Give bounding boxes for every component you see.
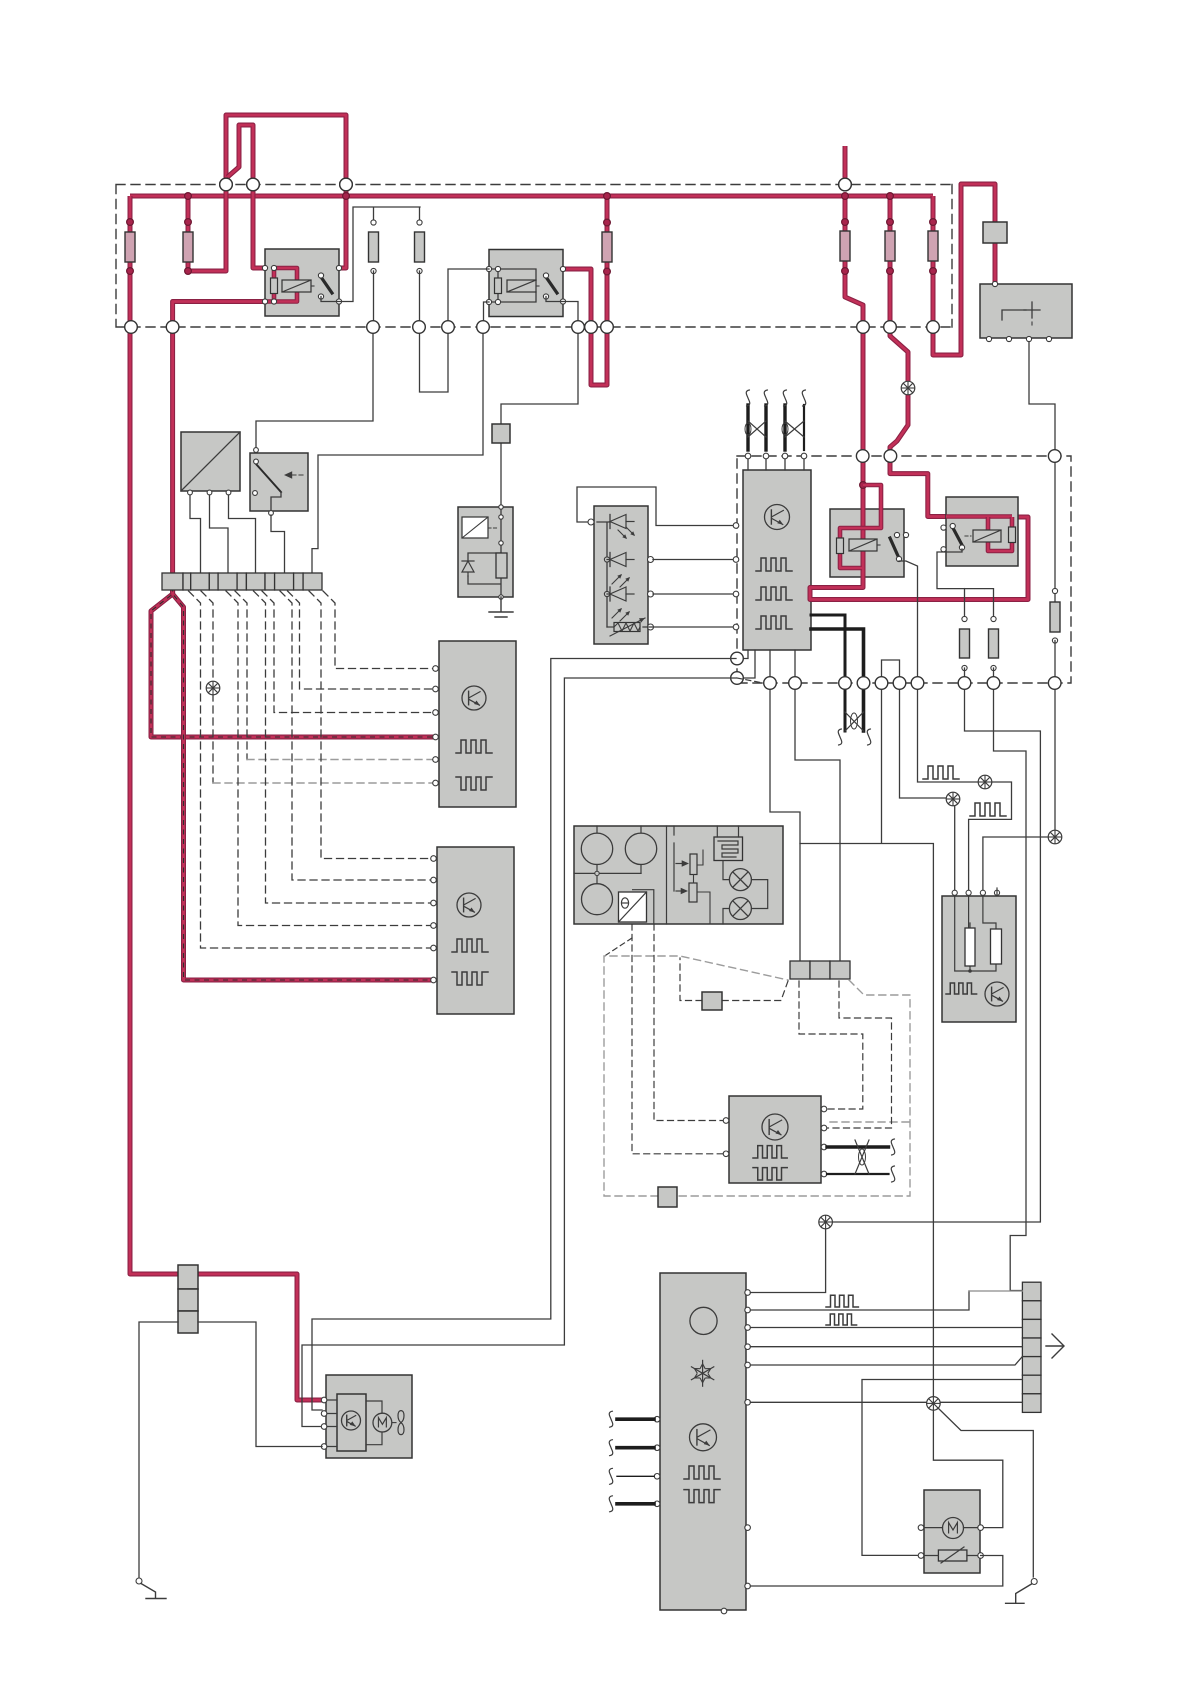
relay K1 coil xyxy=(282,280,311,292)
dashed diagonal to ghost corner xyxy=(606,938,632,955)
node: junction circle (x=253) xyxy=(247,178,260,191)
wire: node x=483 down/left to 14-pin connector xyxy=(312,333,483,573)
node: junction circles overdraw (top rail) xyxy=(220,178,233,191)
center ECU thick output wires with twist xyxy=(827,1145,889,1148)
booster fan motor box xyxy=(924,1490,980,1573)
relay K4 red coil loop xyxy=(988,517,1012,551)
regulator internal wiring xyxy=(468,507,501,597)
wire: node x=578 to voltage regulator via inline connector xyxy=(501,333,578,507)
wire t2 up into strip cell1 xyxy=(750,1291,969,1310)
relay K2 coil feed wire from fuse F4 via loop xyxy=(420,269,490,392)
relay K2 coil ground wire to node x=483 xyxy=(484,302,490,321)
relay K2 coil wires (black) xyxy=(489,269,536,302)
switch arrow xyxy=(292,474,306,476)
LED resistor (variable) xyxy=(607,626,614,628)
relay K3 coil resistor xyxy=(837,538,844,554)
relay K1 red coil loop xyxy=(265,268,297,302)
3-cell inline connector xyxy=(790,961,810,979)
fan control ECU bottom left xyxy=(326,1375,412,1458)
relay K2 (gray box) xyxy=(489,250,563,317)
regulator resistor xyxy=(496,553,507,578)
symbol: K circle xyxy=(690,1424,717,1451)
PWM glyph above wire xyxy=(923,766,959,779)
blower unit right terminals xyxy=(745,1290,751,1296)
wire: red bus tap down to fuse F2 xyxy=(186,196,191,271)
bottom rail junction circles of central unit xyxy=(125,321,138,334)
dashed wires from theta sensor to center ECU left terminals xyxy=(654,924,723,1121)
fuse F5 (red, x=607) with bus tap xyxy=(605,196,610,327)
gray dashed stub right of center ECU xyxy=(830,1121,910,1123)
ECU A (instrument module) xyxy=(439,641,516,807)
connector lamp symbol on harness wire xyxy=(206,681,220,695)
panel indicator lamp 2 xyxy=(729,898,751,920)
fuse F2 (red, x=188) xyxy=(183,232,193,262)
relay K3 coil xyxy=(849,539,877,551)
relay K4 (gray box) xyxy=(946,497,1018,566)
fan ECU motor xyxy=(366,1401,382,1445)
relay K1 switch output wire (black) xyxy=(321,207,420,302)
blower unit bottom edge terminal xyxy=(721,1608,727,1614)
dashed wire from connector cell1 via inline connector xyxy=(722,981,788,1001)
relay K3 switch blade xyxy=(890,538,898,556)
fuse on box2 right edge (x=1055) xyxy=(1054,593,1056,602)
LED 3 xyxy=(607,593,610,595)
fuse feed branch x=964.5 xyxy=(964,589,966,619)
inline connector square (x=501) xyxy=(492,424,510,443)
wire: red from node x=890 down with lamp to node below xyxy=(890,333,908,456)
inline connector blocks left (red feed) xyxy=(178,1265,198,1289)
dashed harness wires from connector to ECU A xyxy=(323,591,435,669)
LED 1 emit arrows xyxy=(618,527,634,538)
relay K2 switch blade xyxy=(546,277,557,293)
junction circles on box2 bottom rail xyxy=(764,677,777,690)
relay K1 (gray box) xyxy=(265,249,339,316)
ECU1 left terminals xyxy=(733,523,739,529)
regulator zener diode xyxy=(462,561,474,576)
LED 3 arrows xyxy=(612,609,629,621)
output arrow xyxy=(1046,1334,1064,1358)
LED sensor box (sun sensor) xyxy=(577,487,733,526)
junction circles on box2 left edge xyxy=(731,652,744,665)
dashed distribution box 2 xyxy=(737,456,1071,683)
three-phase wires with break above ECU1 xyxy=(746,405,749,450)
LED box right terminals and wires to ECU1 xyxy=(648,557,654,563)
relay K4 switch blade xyxy=(953,528,962,545)
wire t3 to strip cell3 xyxy=(750,1327,1022,1329)
relay K1 coil resistor xyxy=(271,278,278,294)
ignition switch xyxy=(980,284,1072,338)
wires from ECU1 bottom terminals t5 t6 long left runs xyxy=(312,659,736,1411)
relay K2 coil xyxy=(507,280,536,292)
wavy break marks xyxy=(838,729,842,745)
relay K1 switch blade xyxy=(321,277,332,293)
wire: red from relay K2 switch out to node x=591 xyxy=(546,269,591,327)
14-pin connector strip xyxy=(162,573,183,590)
central electrical unit (dashed box) xyxy=(116,185,952,328)
relay K2 terminals xyxy=(486,266,491,271)
relay K3 red coil loop xyxy=(840,528,862,568)
red wire from node x=863 through relay K3 down to long red run xyxy=(810,462,1028,600)
fan ECU inner module xyxy=(337,1394,366,1451)
wire: main red feed left, down from bus through fuse F1 to bottom left corner and fan ECU xyxy=(130,196,322,1400)
wire: red feed hook from node x=253 xyxy=(228,125,254,185)
symbol: PWM glyphs xyxy=(684,1466,720,1479)
fan ECU terminals xyxy=(321,1397,327,1403)
fuse below K4 (x=993.5) xyxy=(989,629,999,658)
LED 1 xyxy=(609,515,611,529)
regulator inner converter square xyxy=(462,517,488,538)
relay K4 coil xyxy=(973,530,1001,542)
relay K3 output wire xyxy=(899,561,978,782)
wire: red relay K1 output up through bus to node x=346 xyxy=(322,185,346,277)
voltage regulator box xyxy=(458,507,513,597)
wire t5 to strip diagonal xyxy=(750,1357,1022,1366)
red bus bar y=196 inside box xyxy=(130,194,933,199)
LED 2 xyxy=(607,559,610,561)
inline connector on ignition feed xyxy=(983,222,1007,243)
wire: red long branch from relay K1 lower-left across to x=172.6 and down through CU bottom xyxy=(173,302,265,574)
climate control panel xyxy=(574,826,783,924)
relay K2 switch output wire to node x=578 xyxy=(546,297,578,322)
panel indicator lamp 1 xyxy=(729,869,751,891)
ECU-right (rear electronics module) xyxy=(942,896,1016,1022)
ECU-right internal resistors xyxy=(955,896,996,971)
wire cell6 to blower resistor xyxy=(862,1380,1022,1556)
wire lamp2 branch to motor xyxy=(938,1408,1033,1577)
ECU B (module) xyxy=(437,847,514,1014)
gray dashed wires to ECU A lower pins xyxy=(235,591,247,760)
heater grid symbol xyxy=(714,837,743,861)
PWM glyph 2 xyxy=(970,803,1006,816)
ECU1 right side thick wires to twisted pair below xyxy=(811,615,845,731)
node: junction circle top-left (x=226) xyxy=(220,178,233,191)
relay K1 dashed link xyxy=(311,285,316,287)
twisted pair cross marks xyxy=(748,421,766,437)
ground switch bottom left xyxy=(136,1578,142,1584)
relay K2 dashed link xyxy=(536,285,541,287)
dashed wire connector cell1 to center ECU right t1 xyxy=(799,981,863,1109)
fuse F4 (x=419.5) xyxy=(415,232,425,262)
wire: red from fuse F2 bottom looping to x=226 vertical xyxy=(188,185,226,272)
connector lamp symbol on red wire x=908 xyxy=(901,381,915,395)
heater blower main unit (tall gray box) xyxy=(660,1273,746,1610)
red wire from node x=890 into relay K4 xyxy=(890,462,946,517)
knob 1 xyxy=(581,833,612,864)
wire chain from K3 output through lamp xyxy=(978,775,992,789)
wire: node x=373 down to mode switch xyxy=(256,333,373,450)
fuse F1 (red, x=130) xyxy=(125,232,135,262)
knob 3 xyxy=(582,884,613,915)
connector lamp on wire to ECU-right t1 xyxy=(946,792,960,806)
right vertical connector strip xyxy=(1022,1282,1041,1301)
panel potentiometers xyxy=(667,826,675,924)
wires A/D box to 14-pin connector xyxy=(190,495,201,573)
fuse F8 (red, x=933) feeding ignition switch xyxy=(933,184,995,355)
dashed link to bottom rail xyxy=(737,678,763,683)
junction circles on box2 top edge xyxy=(856,450,869,463)
relay K4 dashed link xyxy=(965,535,971,537)
relay K2 coil resistor xyxy=(495,278,502,294)
node: junction circle (x=346) xyxy=(340,178,353,191)
mode selector switch box xyxy=(250,453,308,511)
dashed harness wires from connector to ECU B xyxy=(309,591,433,859)
blower unit left wires with breaks xyxy=(654,1416,660,1422)
theta temperature sensor xyxy=(619,892,647,922)
wire: red U-loop below bottom dashed rail x=591-607 xyxy=(591,327,607,385)
red branch into K3 coil xyxy=(862,485,881,528)
lamp wiring xyxy=(723,861,768,924)
LED 2 arrows xyxy=(612,575,629,587)
wire from block right to fan ECU xyxy=(198,1322,322,1447)
relay K4 coil resistor xyxy=(1009,527,1016,543)
fuse F6 (red, x=845) xyxy=(843,146,848,185)
wire: red roof split below 14-pin connector xyxy=(151,577,434,737)
fuse F3 (x=373.5) xyxy=(369,232,379,262)
wire t1 to strip via lamp xyxy=(750,1228,825,1293)
node: junction circle (x=845) xyxy=(839,178,852,191)
wire rheostat back to blower unit xyxy=(750,1556,1002,1587)
inline connector on ghost bottom edge xyxy=(658,1187,677,1207)
relay K3 dashed link xyxy=(877,544,882,546)
fuse below K3 branch (x=964.5) xyxy=(960,629,970,658)
relay K4 red internal top wire xyxy=(946,514,1012,519)
wires down from U-loop nodes xyxy=(800,689,933,1403)
wire t4 to strip cell4 xyxy=(750,1346,1022,1348)
twisted pair cross below box2 xyxy=(845,712,864,731)
wire: red feed loop over top (n-shape) from node at x=226 to x=346 xyxy=(226,115,346,185)
relay K3 (gray box) xyxy=(830,509,904,577)
wire from fuse x=964.5 down to heater lamp run xyxy=(832,668,1040,1222)
switch to ground bottom right xyxy=(1031,1579,1037,1585)
symbol: circle xyxy=(690,1307,717,1334)
switch lower wire xyxy=(271,492,281,513)
center ECU (power stage) xyxy=(729,1096,821,1183)
A/D converter box xyxy=(181,432,240,491)
wire: red from node x=253 down to relay K1 coil xyxy=(253,185,266,269)
dashed wire connector cell3 to center ECU right t2 xyxy=(827,981,892,1128)
motor M xyxy=(943,1518,964,1539)
knob 2 xyxy=(625,833,656,864)
lamp on wire from fuse x=1055 xyxy=(1048,830,1062,844)
fuse F7 (red, x=890) xyxy=(888,196,893,327)
ghost variant outline (light gray dashed) xyxy=(604,956,910,1196)
inline connector square xyxy=(702,992,722,1010)
wire t6 to strip bottom cell via lamp xyxy=(750,1401,1022,1403)
wire from block to ground switch xyxy=(139,1322,178,1578)
LED internal bus xyxy=(597,522,610,627)
black U-loop above bottom rail x=881-899 xyxy=(882,660,900,683)
symbol: snowflake xyxy=(702,1373,704,1387)
ECU1 bottom wires to junction nodes xyxy=(743,650,755,678)
relay K4 output wire to fuse xyxy=(937,549,994,619)
fan symbol xyxy=(398,1411,404,1435)
ground symbol below regulator xyxy=(489,597,513,617)
motor resistor (rheostat) xyxy=(938,1550,967,1561)
relay K1 terminals xyxy=(262,265,267,270)
ignition switch wire from terminal to dashed box 2 xyxy=(1029,339,1055,591)
switch blade xyxy=(256,464,281,492)
ECU1 main control module xyxy=(743,470,811,650)
